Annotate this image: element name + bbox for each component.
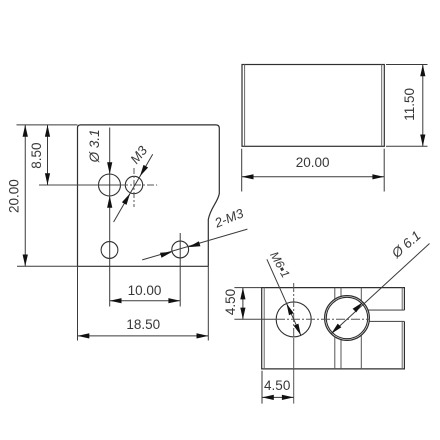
hole M3 top — [125, 176, 142, 193]
dia 6.1 leader line — [331, 244, 429, 334]
svg-text:20.00: 20.00 — [7, 179, 22, 213]
dim 4.50 left line — [242, 288, 244, 320]
hole big top-left (3.1mm) — [99, 174, 121, 196]
vertical centerline bottom-right hole — [179, 233, 181, 307]
inner edge left — [244, 65, 246, 147]
step edge line 3 — [360, 288, 362, 301]
M6x1 arrows — [287, 303, 294, 315]
svg-text:11.50: 11.50 — [402, 88, 417, 121]
dim 20.00 line — [24, 125, 26, 266]
svg-text:20.00: 20.00 — [296, 155, 330, 170]
dia 3.1 arrows — [107, 162, 112, 174]
dim 4.50 bottom line — [262, 396, 294, 398]
bottom view outline with slot opening on right — [262, 288, 405, 369]
dim 4.50 bottom: extensions — [261, 371, 263, 404]
step edge line 2 — [340, 288, 342, 297]
svg-text:8.50: 8.50 — [29, 142, 44, 168]
slot top edge — [368, 309, 405, 311]
svg-text:10.00: 10.00 — [128, 283, 162, 298]
dim 8.50 vertical line — [47, 125, 49, 185]
dia 6.1 arrows — [331, 324, 341, 334]
dim 11.50 extensions — [386, 64, 428, 66]
vertical centerline M3 hole — [133, 168, 135, 207]
dim 4.50 left: extensions — [234, 287, 261, 289]
horizontal centerline bottom view — [234, 318, 276, 320]
slot bottom edge — [369, 320, 405, 322]
hole M6 — [276, 302, 311, 337]
svg-text:Ø 3.1: Ø 3.1 — [87, 129, 102, 163]
dim 20.00 extensions — [241, 149, 243, 192]
hole bottom-left — [101, 242, 118, 259]
svg-text:4.50: 4.50 — [223, 289, 238, 315]
vertical line through left holes (dia 3.1 dim + centerline) — [109, 128, 111, 307]
M3 leader line — [114, 154, 153, 222]
M6x1 leader line — [267, 259, 301, 335]
svg-text:4.50: 4.50 — [264, 378, 290, 393]
front view body outline — [78, 125, 220, 266]
svg-text:18.50: 18.50 — [126, 317, 160, 332]
hole bottom-right — [172, 241, 189, 258]
dim 20.00 line — [242, 176, 385, 178]
dim 20.00 vertical: extension lines — [17, 124, 78, 126]
inner edge right upper (interrupted by slot) — [401, 288, 403, 311]
side view body — [242, 65, 384, 147]
dim 10.00 line — [110, 300, 181, 302]
inner edge right lower — [401, 321, 403, 369]
2-M3 arrows — [188, 241, 200, 247]
hole 6.1 outer — [325, 296, 370, 341]
dim 18.50 extension lines — [77, 267, 79, 341]
2-M3 leader line — [142, 229, 247, 260]
dim 18.50 line — [78, 335, 209, 337]
horizontal centerline through top holes / 8.50 extension — [39, 184, 121, 186]
inner edge right — [381, 65, 383, 147]
step edge line 1 — [334, 288, 336, 300]
M3 arrows — [140, 165, 148, 177]
inner edge left — [263, 288, 265, 369]
hole 6.1 inner — [326, 297, 367, 338]
vertical centerline M6 — [293, 283, 295, 338]
dim 11.50 line — [422, 65, 424, 147]
